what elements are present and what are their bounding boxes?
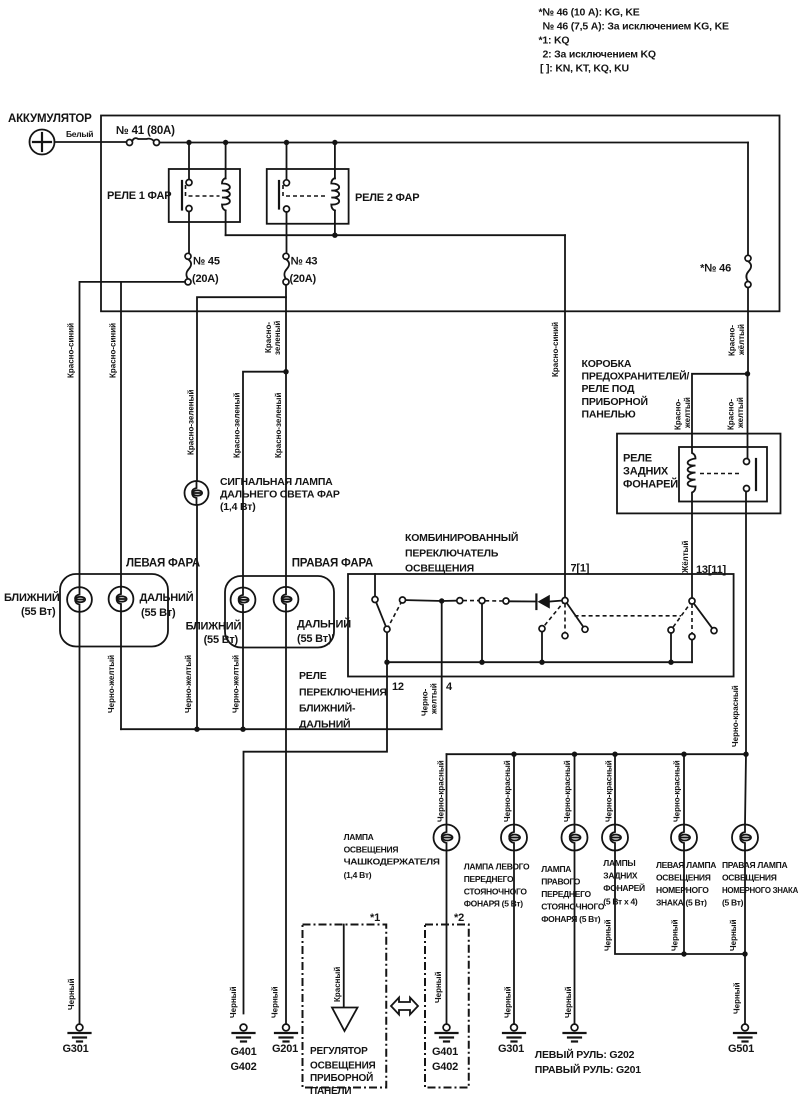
contact circle G (503, 598, 509, 604)
lamp2 left front parking (501, 825, 527, 851)
svg-text:желтый: желтый (683, 397, 692, 429)
svg-text:Черно-красный: Черно-красный (605, 760, 614, 822)
wire fuse46 down (747, 288, 749, 372)
svg-text:*2: *2 (454, 912, 464, 924)
contact circle left of pivot1 (539, 626, 545, 632)
node relay1 coil feed (223, 140, 228, 145)
svg-text:Черный: Черный (67, 978, 76, 1010)
node right low beam to bus (240, 727, 245, 732)
svg-text:Черный: Черный (729, 919, 738, 951)
node lamp6 junction (742, 951, 747, 956)
fuse 45 (185, 253, 220, 285)
dashed box 2 (425, 925, 469, 1088)
contact circle A (372, 597, 378, 603)
svg-text:РЕЛЕ 1 ФАР: РЕЛЕ 1 ФАР (107, 190, 171, 202)
svg-text:ЛЕВАЯ ЛАМПА: ЛЕВАЯ ЛАМПА (656, 860, 716, 870)
svg-text:№ 41 (80А): № 41 (80А) (116, 125, 175, 137)
svg-text:(55 Вт)ʹ: (55 Вт)ʹ (297, 633, 334, 645)
contact circle B (384, 626, 390, 632)
svg-text:Черно-красный: Черно-красный (437, 760, 446, 822)
svg-text:ЛЕВАЯ ФАРА: ЛЕВАЯ ФАРА (126, 558, 200, 570)
fuse 43 (283, 253, 317, 285)
svg-text:№ 43: № 43 (291, 256, 318, 268)
relay 1 box (169, 169, 240, 222)
arrow triangle in box1 (332, 1008, 358, 1032)
svg-text:№ 45: № 45 (193, 256, 220, 268)
svg-text:Красно-синий: Красно-синий (109, 323, 118, 378)
svg-text:желтый: желтый (736, 397, 745, 429)
fuse 41 (80A) (116, 125, 175, 146)
legend notes (539, 7, 729, 75)
rear relay coil (688, 447, 696, 502)
left low beam lamp (67, 587, 92, 612)
fuse 46 (700, 255, 751, 287)
node relay2 coil feed (332, 140, 337, 145)
fuse box label (582, 358, 690, 420)
dashed link E-F (463, 600, 479, 602)
svg-text:ДАЛЬНИЙ: ДАЛЬНИЙ (140, 591, 194, 604)
dimmer relay label (299, 670, 387, 731)
svg-text:ФОНАРЕЙ: ФОНАРЕЙ (603, 882, 645, 893)
node lamp3 feed (572, 752, 577, 757)
svg-text:ЛЕВЫЙ РУЛЬ: G202: ЛЕВЫЙ РУЛЬ: G202 (535, 1048, 635, 1061)
svg-text:Черно-красный: Черно-красный (731, 685, 740, 747)
wire bus to lamp5 (683, 754, 685, 824)
node left contact to bus (539, 660, 544, 665)
ground G401 G402 left (230, 1024, 256, 1073)
svg-text:G201: G201 (272, 1043, 298, 1055)
svg-text:РЕЛЕ ПОД: РЕЛЕ ПОД (582, 383, 635, 395)
wire bus to lamp4 (614, 754, 616, 824)
svg-text:(20А): (20А) (192, 273, 219, 285)
svg-text:(55 Вт): (55 Вт) (21, 606, 56, 618)
wire lamp1 to ground (446, 851, 448, 1025)
relay 2 switch (279, 143, 328, 254)
wire down to fuse 46 (747, 143, 749, 256)
combination light switch box (348, 574, 734, 677)
wire label Красно-зеленый two lines (264, 321, 282, 355)
wire below-pivot2 contact to bus end (691, 640, 693, 663)
cup holder lamp label (344, 832, 440, 880)
wire label Красно-желтый right (727, 397, 746, 430)
dashed link B-C (387, 600, 403, 629)
svg-text:РЕЛЕ: РЕЛЕ (299, 670, 327, 682)
svg-text:G401: G401 (230, 1046, 256, 1058)
wire fuse43 down (285, 285, 287, 587)
wire left contact2 down to bus (670, 633, 672, 662)
svg-text:ОСВЕЩЕНИЯ: ОСВЕЩЕНИЯ (310, 1061, 376, 1072)
svg-text:ОСВЕЩЕНИЯ: ОСВЕЩЕНИЯ (405, 563, 474, 575)
svg-text:ДАЛЬНЕГО СВЕТА ФАР: ДАЛЬНЕГО СВЕТА ФАР (220, 489, 340, 501)
wire coil bus to switch pin 7 (564, 235, 566, 597)
left high beam label (140, 591, 194, 619)
svg-text:(55 Вт): (55 Вт) (141, 607, 176, 619)
node relay2 coil to bus (332, 233, 337, 238)
svg-text:Красно-синий: Красно-синий (67, 323, 76, 378)
contact circle below pivot2 (689, 634, 695, 640)
svg-text:Красно-зеленый: Красно-зеленый (274, 393, 283, 458)
wire G to diode (509, 600, 535, 602)
contact circle C (400, 597, 406, 603)
svg-text:(55 Вт): (55 Вт) (204, 634, 239, 646)
coil bus wire (226, 234, 565, 236)
svg-text:G301: G301 (62, 1043, 88, 1055)
svg-text:*1: *1 (370, 912, 380, 924)
svg-text:СТОЯНОЧНОГО: СТОЯНОЧНОГО (464, 887, 528, 897)
svg-text:2: За исключением KQ: 2: За исключением KQ (543, 49, 656, 61)
svg-text:КОРОБКА: КОРОБКА (582, 358, 632, 370)
lamp3 label (541, 864, 605, 924)
svg-text:ПЕРЕКЛЮЧАТЕЛЬ: ПЕРЕКЛЮЧАТЕЛЬ (405, 548, 499, 560)
wire branch to signal lamp (197, 297, 286, 481)
svg-text:№ 46 (7,5 А): За исключением K: № 46 (7,5 А): За исключением KG, KE (543, 21, 729, 33)
lamp6 label (722, 860, 798, 908)
switch arm pivot1 to contact (565, 601, 585, 630)
relay 2 box (267, 169, 349, 224)
svg-text:ПАНЕЛЬЮ: ПАНЕЛЬЮ (582, 408, 636, 420)
node lamp5 feed (681, 752, 686, 757)
svg-text:КОМБИНИРОВАННЫЙ: КОМБИНИРОВАННЫЙ (405, 531, 518, 544)
node relay2 switch feed (284, 140, 289, 145)
left low beam label (4, 591, 60, 618)
svg-text:ЛАМПА: ЛАМПА (541, 864, 571, 874)
ground G202/G201 (564, 1024, 586, 1041)
svg-text:СИГНАЛЬНАЯ ЛАМПА: СИГНАЛЬНАЯ ЛАМПА (220, 476, 333, 488)
fuse box outline (617, 434, 781, 514)
switch arm pivot2 (692, 601, 714, 631)
contact circle arm1 end (582, 626, 588, 632)
wire F down to bus (481, 604, 483, 663)
svg-text:ПРАВЫЙ РУЛЬ: G201: ПРАВЫЙ РУЛЬ: G201 (535, 1063, 642, 1076)
contact circle arm2 end (711, 628, 717, 634)
signal lamp label (220, 476, 340, 513)
svg-text:(1,4 Вт): (1,4 Вт) (220, 501, 256, 513)
svg-text:Красный: Красный (333, 967, 342, 1002)
wire label Красно-желтый left (674, 397, 693, 430)
svg-text:Черный: Черный (604, 919, 613, 951)
node F to bus (479, 660, 484, 665)
lamp5 left license plate (671, 825, 697, 851)
svg-text:G402: G402 (432, 1061, 458, 1073)
wire branch to rear relay coil (692, 374, 748, 447)
svg-text:ЗАДНИХ: ЗАДНИХ (603, 871, 638, 881)
wire branch to right low beam (243, 372, 286, 588)
node fuse box feed (745, 371, 750, 376)
wire lamp3 to ground (574, 851, 576, 1025)
svg-text:Красно-зеленый: Красно-зеленый (233, 393, 242, 458)
svg-text:Черный: Черный (271, 986, 280, 1018)
svg-text:(20А): (20А) (290, 273, 317, 285)
svg-text:АККУМУЛЯТОР: АККУМУЛЯТОР (8, 113, 92, 125)
svg-text:ПРАВАЯ ЛАМПА: ПРАВАЯ ЛАМПА (722, 860, 787, 870)
wire fuse41 to top-right corner (160, 142, 749, 144)
svg-text:РЕЛЕ: РЕЛЕ (623, 453, 652, 465)
tail lamp bus wire (447, 753, 747, 755)
svg-text:12: 12 (392, 681, 404, 693)
node relay1 switch feed (186, 140, 191, 145)
wire bus to cup holder lamp (446, 754, 448, 824)
svg-text:Черный: Черный (504, 986, 513, 1018)
svg-text:зеленый: зеленый (273, 321, 282, 355)
cup holder lamp (434, 825, 460, 851)
svg-text:ПРЕДОХРАНИТЕЛЕЙ/: ПРЕДОХРАНИТЕЛЕЙ/ (582, 370, 690, 383)
lamp3 right front parking (562, 825, 588, 851)
right headlight box (225, 576, 334, 648)
svg-text:7[1]: 7[1] (571, 563, 590, 575)
svg-text:НОМЕРНОГО ЗНАКА: НОМЕРНОГО ЗНАКА (722, 885, 798, 895)
svg-text:Красно-зеленый: Красно-зеленый (187, 390, 196, 455)
wire rear relay coil to pin 13, label Жёлтый (681, 502, 692, 599)
battery (30, 130, 55, 155)
node D (439, 598, 444, 603)
combination light switch title (405, 531, 518, 575)
wire battery to fuse 41, label Белый (55, 129, 127, 142)
lamp4 tail lamps (602, 825, 628, 851)
svg-text:Жёлтый: Жёлтый (681, 540, 690, 574)
contact circle F (479, 598, 485, 604)
regulator label (310, 1046, 376, 1097)
wire C to D (403, 600, 442, 601)
wire left low beam to ground (79, 612, 81, 1024)
right high beam label (297, 618, 351, 646)
svg-text:Красно-: Красно- (674, 399, 683, 430)
dashed contact below pivot1 (564, 604, 566, 633)
steering wheel ground note (535, 1048, 642, 1076)
svg-text:ОСВЕЩЕНИЯ: ОСВЕЩЕНИЯ (344, 845, 399, 855)
wire label Красно-жёлтый (728, 324, 747, 356)
svg-text:ЧАШКОДЕРЖАТЕЛЯ: ЧАШКОДЕРЖАТЕЛЯ (344, 857, 440, 867)
svg-text:Красно-: Красно- (264, 322, 273, 353)
rear lights relay box (679, 447, 767, 502)
svg-text:ОСВЕЩЕНИЯ: ОСВЕЩЕНИЯ (722, 873, 777, 883)
svg-text:жёлтый: жёлтый (737, 324, 746, 356)
lamp4 label (603, 858, 645, 907)
svg-text:Черно-: Черно- (421, 688, 430, 716)
svg-text:ЛАМПА: ЛАМПА (344, 832, 374, 842)
wire rear relay switch feed (747, 374, 749, 459)
right high beam lamp (274, 587, 299, 612)
diode D1 (536, 595, 562, 610)
svg-text:БЛИЖНИЙ: БЛИЖНИЙ (4, 591, 60, 604)
svg-text:Черно-желтый: Черно-желтый (184, 655, 193, 713)
wire junction to ground G501 (744, 954, 746, 1024)
svg-text:*№ 46 (10 А): KG, KE: *№ 46 (10 А): KG, KE (539, 7, 640, 19)
wire branch to left high beam (120, 282, 122, 587)
svg-text:*1: KQ: *1: KQ (539, 35, 570, 47)
svg-text:ФОНАРЕЙ: ФОНАРЕЙ (623, 478, 678, 491)
svg-text:ЛАМПЫ: ЛАМПЫ (603, 858, 635, 868)
svg-text:Белый: Белый (66, 129, 93, 139)
svg-text:Черно-желтый: Черно-желтый (232, 655, 241, 713)
wire bus to lamp6 (745, 754, 746, 824)
node contact2 to bus (668, 660, 673, 665)
wire bus to lamp2 (513, 754, 515, 824)
ground G301 right (498, 1024, 525, 1055)
svg-text:(5 Вт х 4): (5 Вт х 4) (603, 897, 638, 907)
ground G501 (728, 1024, 756, 1055)
wire Красный in box1 (333, 925, 344, 1008)
svg-text:желтый: желтый (430, 683, 439, 715)
contact circle E (457, 598, 463, 604)
node lamp4 feed (612, 752, 617, 757)
wire lamp4 down and right (615, 851, 745, 955)
relay 1 switch (182, 143, 220, 254)
left headlight box (60, 574, 168, 647)
svg-text:ПЕРЕКЛЮЧЕНИЯ: ПЕРЕКЛЮЧЕНИЯ (299, 687, 387, 699)
svg-text:13[11]: 13[11] (696, 564, 727, 576)
svg-text:ФОНАРЯ (5 Вт): ФОНАРЯ (5 Вт) (541, 914, 601, 924)
svg-text:Красно-: Красно- (727, 399, 736, 430)
contact circle left of pivot2 (668, 627, 674, 633)
svg-text:РЕЛЕ 2 ФАР: РЕЛЕ 2 ФАР (355, 192, 419, 204)
contact circle pivot2 (689, 598, 695, 604)
wire pin 12 to ground (244, 662, 388, 1013)
wire rear relay switch output (745, 492, 747, 755)
dashed box 1 panel light regulator (303, 925, 387, 1088)
svg-text:ПРАВАЯ ФАРА: ПРАВАЯ ФАРА (292, 558, 373, 570)
headlight bus wire (121, 728, 442, 730)
double arrow symbol (391, 998, 418, 1015)
dashed mechanical link (575, 615, 681, 617)
svg-text:Черный: Черный (229, 986, 238, 1018)
big loop wire rectangle (101, 116, 780, 312)
svg-text:Красно-синий: Красно-синий (551, 322, 560, 377)
node bus right end (743, 752, 748, 757)
signal lamp high beam (185, 481, 209, 505)
node fuse43 branch (283, 369, 288, 374)
svg-text:Черный: Черный (564, 986, 573, 1018)
contact circle pivot1 (562, 598, 568, 604)
switch arm A-B (375, 600, 387, 630)
svg-text:[ ]: KN, KT, KQ, KU: [ ]: KN, KT, KQ, KU (540, 63, 629, 75)
wire right low beam to bus (242, 612, 244, 729)
wire left high beam to bus (120, 611, 122, 729)
ground G401 G402 right (432, 1024, 458, 1073)
svg-text:*№ 46: *№ 46 (700, 263, 731, 275)
dashed link pivot2 to left contact (671, 601, 692, 630)
switch internal bus (387, 661, 692, 663)
wire lamp5 down (683, 851, 685, 955)
right low beam label (186, 620, 242, 647)
svg-text:Черный: Черный (434, 971, 443, 1003)
svg-text:РЕГУЛЯТОР: РЕГУЛЯТОР (310, 1046, 368, 1057)
svg-text:Черно-красный: Черно-красный (503, 760, 512, 822)
svg-text:G501: G501 (728, 1043, 754, 1055)
relay 2 coil (331, 143, 339, 236)
wire pin 4 (441, 604, 443, 730)
svg-text:Черно-красный: Черно-красный (563, 760, 572, 822)
right low beam lamp (231, 588, 256, 613)
wire bus to lamp3 (574, 754, 576, 824)
svg-text:Красно-: Красно- (728, 325, 737, 356)
svg-text:Черно-красный: Черно-красный (673, 760, 682, 822)
svg-text:БЛИЖНИЙ: БЛИЖНИЙ (186, 620, 242, 633)
relay 1 coil (222, 143, 230, 236)
dashed link F-G (485, 600, 503, 602)
wire left contact down to bus (541, 632, 543, 663)
wire signal lamp down (196, 505, 198, 729)
wire lamp6 down (744, 851, 746, 955)
svg-text:ПЕРЕДНЕГО: ПЕРЕДНЕГО (541, 889, 591, 899)
node lamp2 feed (511, 752, 516, 757)
svg-text:ПРИБОРНОЙ: ПРИБОРНОЙ (582, 395, 648, 408)
wire fuse45 to left headlight low beam (80, 282, 186, 587)
svg-text:НОМЕРНОГО: НОМЕРНОГО (656, 885, 709, 895)
wire lamp2 to ground (513, 851, 515, 1025)
svg-text:БЛИЖНИЙ-: БЛИЖНИЙ- (299, 702, 356, 715)
svg-text:Черный: Черный (733, 982, 742, 1014)
svg-text:G301: G301 (498, 1043, 524, 1055)
ground G301 left (62, 1024, 90, 1055)
wire D to E (442, 600, 460, 602)
lamp5 label (656, 860, 716, 908)
wire right high beam to ground (285, 612, 287, 1024)
node lamp5 junction (681, 951, 686, 956)
rear lights relay label (623, 453, 678, 491)
left high beam lamp (109, 587, 134, 612)
wire label Черно-желтый two lines (421, 683, 439, 716)
node signal lamp to bus (194, 727, 199, 732)
dashed contact below pivot2 (691, 604, 693, 634)
svg-text:ПАНЕЛИ: ПАНЕЛИ (310, 1086, 351, 1097)
lamp6 right license plate (732, 825, 758, 851)
lamp2 label (464, 862, 530, 909)
dashed link pivot1 to left contact (542, 601, 565, 629)
rear relay switch (700, 459, 756, 492)
svg-text:ДАЛЬНИЙ: ДАЛЬНИЙ (297, 618, 351, 631)
svg-text:Черный: Черный (671, 919, 680, 951)
ground G201 (272, 1024, 298, 1055)
svg-text:G401: G401 (432, 1046, 458, 1058)
contact circle below pivot1 (562, 633, 568, 639)
svg-text:СТОЯНОЧНОГО: СТОЯНОЧНОГО (541, 902, 605, 912)
svg-text:(5 Вт): (5 Вт) (722, 898, 744, 908)
svg-text:Черно-желтый: Черно-желтый (107, 655, 116, 713)
svg-text:(1,4 Вт): (1,4 Вт) (344, 870, 372, 880)
svg-text:ЛАМПА ЛЕВОГО: ЛАМПА ЛЕВОГО (464, 862, 530, 872)
wire B down to bus (386, 629, 388, 662)
svg-text:ПРИБОРНОЙ: ПРИБОРНОЙ (310, 1071, 373, 1084)
svg-text:G402: G402 (230, 1061, 256, 1073)
svg-text:ЗАДНИХ: ЗАДНИХ (623, 466, 669, 478)
svg-text:ЗНАКА (5 Вт): ЗНАКА (5 Вт) (656, 898, 707, 908)
svg-text:ПЕРЕДНЕГО: ПЕРЕДНЕГО (464, 874, 514, 884)
switch pivot A stub (374, 574, 376, 600)
node bus left end (384, 660, 389, 665)
